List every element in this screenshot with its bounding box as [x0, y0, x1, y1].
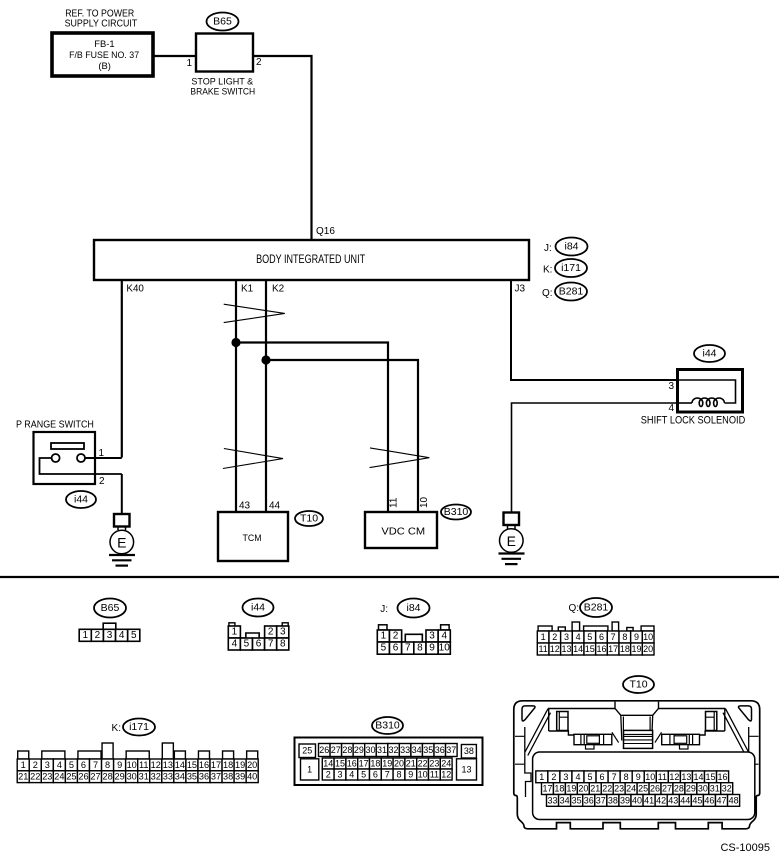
svg-text:27: 27 [90, 772, 100, 782]
svg-text:30: 30 [365, 745, 375, 755]
svg-text:16: 16 [347, 759, 357, 769]
svg-text:31: 31 [377, 745, 387, 755]
svg-text:2: 2 [552, 632, 557, 642]
svg-text:B65: B65 [101, 602, 120, 614]
svg-text:SHIFT LOCK SOLENOID: SHIFT LOCK SOLENOID [641, 415, 746, 427]
svg-text:22: 22 [418, 759, 428, 769]
svg-text:TCM: TCM [243, 533, 262, 544]
svg-text:21: 21 [406, 759, 416, 769]
svg-text:34: 34 [175, 772, 185, 782]
svg-text:6: 6 [81, 760, 86, 770]
svg-text:32: 32 [722, 784, 732, 794]
svg-text:10: 10 [643, 632, 653, 642]
svg-text:B281: B281 [584, 602, 609, 614]
svg-text:31: 31 [710, 784, 720, 794]
svg-text:4: 4 [575, 772, 580, 782]
svg-text:29: 29 [115, 772, 125, 782]
svg-text:1: 1 [99, 448, 105, 459]
svg-text:6: 6 [599, 632, 604, 642]
svg-text:7: 7 [405, 643, 411, 654]
svg-text:18: 18 [620, 644, 630, 654]
svg-text:13: 13 [163, 760, 173, 770]
svg-text:14: 14 [175, 760, 185, 770]
svg-text:FB-1: FB-1 [94, 38, 114, 49]
svg-text:4: 4 [119, 630, 125, 641]
svg-text:19: 19 [382, 759, 392, 769]
svg-text:33: 33 [548, 795, 558, 805]
svg-text:19: 19 [566, 784, 576, 794]
svg-text:4: 4 [668, 403, 674, 414]
svg-text:8: 8 [105, 760, 110, 770]
svg-text:1: 1 [539, 772, 544, 782]
svg-text:8: 8 [624, 772, 629, 782]
svg-text:30: 30 [698, 784, 708, 794]
svg-text:35: 35 [423, 745, 433, 755]
svg-text:22: 22 [602, 784, 612, 794]
svg-text:31: 31 [139, 772, 149, 782]
svg-text:26: 26 [319, 745, 329, 755]
svg-text:2: 2 [256, 57, 262, 68]
svg-text:23: 23 [614, 784, 624, 794]
svg-text:42: 42 [656, 795, 666, 805]
svg-text:K40: K40 [126, 283, 144, 294]
svg-text:11: 11 [389, 497, 400, 508]
svg-text:2: 2 [33, 760, 38, 770]
svg-text:B281: B281 [559, 286, 584, 298]
svg-text:32: 32 [389, 745, 399, 755]
svg-text:i44: i44 [251, 602, 265, 614]
svg-text:3: 3 [668, 381, 674, 392]
svg-text:J3: J3 [515, 284, 526, 295]
svg-text:7: 7 [385, 770, 390, 780]
svg-text:13: 13 [561, 644, 571, 654]
svg-text:2: 2 [326, 770, 331, 780]
svg-text:5: 5 [244, 639, 250, 650]
svg-text:12: 12 [151, 760, 161, 770]
svg-text:18: 18 [554, 784, 564, 794]
svg-text:Q:: Q: [542, 288, 553, 299]
svg-text:21: 21 [590, 784, 600, 794]
svg-text:11: 11 [430, 770, 439, 780]
svg-text:E: E [117, 535, 126, 551]
svg-text:9: 9 [634, 632, 639, 642]
svg-text:BODY INTEGRATED UNIT: BODY INTEGRATED UNIT [256, 252, 366, 266]
svg-text:2: 2 [551, 772, 556, 782]
svg-text:30: 30 [127, 772, 137, 782]
svg-text:B65: B65 [213, 16, 232, 28]
svg-text:4: 4 [232, 639, 238, 650]
svg-text:17: 17 [608, 644, 618, 654]
svg-text:9: 9 [636, 772, 641, 782]
svg-text:5: 5 [587, 632, 592, 642]
svg-text:Q:: Q: [568, 603, 579, 614]
svg-text:26: 26 [78, 772, 88, 782]
svg-text:9: 9 [408, 770, 413, 780]
svg-text:43: 43 [668, 795, 678, 805]
svg-text:24: 24 [441, 759, 451, 769]
svg-text:24: 24 [54, 772, 64, 782]
svg-text:E: E [507, 533, 516, 549]
svg-text:8: 8 [622, 632, 627, 642]
svg-text:12: 12 [550, 644, 560, 654]
svg-text:14: 14 [323, 759, 333, 769]
svg-text:47: 47 [717, 795, 727, 805]
svg-text:17: 17 [542, 784, 552, 794]
svg-text:35: 35 [572, 795, 582, 805]
svg-text:5: 5 [381, 643, 387, 654]
svg-text:46: 46 [704, 795, 714, 805]
svg-text:43: 43 [239, 501, 251, 512]
svg-text:P RANGE SWITCH: P RANGE SWITCH [16, 420, 94, 431]
svg-text:J:: J: [380, 604, 388, 615]
svg-text:20: 20 [578, 784, 588, 794]
svg-text:B310: B310 [444, 506, 469, 518]
svg-text:4: 4 [349, 770, 354, 780]
svg-text:15: 15 [187, 760, 197, 770]
svg-text:i84: i84 [406, 602, 420, 614]
svg-text:19: 19 [235, 760, 245, 770]
svg-text:12: 12 [441, 770, 451, 780]
svg-text:18: 18 [370, 759, 380, 769]
svg-text:39: 39 [620, 795, 630, 805]
svg-text:40: 40 [632, 795, 642, 805]
svg-text:1: 1 [186, 58, 192, 69]
svg-text:13: 13 [681, 772, 691, 782]
svg-text:25: 25 [66, 772, 76, 782]
svg-text:5: 5 [361, 770, 366, 780]
svg-text:15: 15 [585, 644, 595, 654]
svg-text:38: 38 [464, 746, 474, 756]
svg-text:10: 10 [418, 770, 428, 780]
svg-text:7: 7 [268, 639, 274, 650]
svg-text:Q16: Q16 [316, 226, 335, 237]
svg-text:19: 19 [631, 644, 641, 654]
svg-text:3: 3 [337, 770, 342, 780]
svg-text:29: 29 [354, 745, 364, 755]
svg-text:28: 28 [342, 745, 352, 755]
svg-text:39: 39 [235, 772, 245, 782]
svg-text:22: 22 [30, 772, 40, 782]
svg-text:3: 3 [280, 627, 286, 638]
svg-text:21: 21 [18, 772, 28, 782]
svg-text:1: 1 [307, 764, 312, 774]
svg-text:4: 4 [441, 631, 447, 642]
svg-text:26: 26 [650, 784, 660, 794]
svg-text:20: 20 [394, 759, 404, 769]
svg-text:T10: T10 [629, 679, 647, 691]
svg-text:i44: i44 [702, 348, 716, 360]
svg-text:7: 7 [611, 632, 616, 642]
svg-text:36: 36 [584, 795, 594, 805]
svg-text:34: 34 [412, 745, 422, 755]
svg-text:17: 17 [211, 760, 221, 770]
svg-text:4: 4 [576, 632, 581, 642]
svg-text:1: 1 [82, 630, 88, 641]
svg-text:23: 23 [42, 772, 52, 782]
svg-text:10: 10 [419, 496, 430, 508]
svg-text:2: 2 [268, 627, 274, 638]
svg-text:i171: i171 [129, 721, 149, 733]
svg-text:11: 11 [658, 772, 667, 782]
svg-text:8: 8 [280, 639, 286, 650]
svg-text:28: 28 [102, 772, 112, 782]
svg-text:K2: K2 [272, 284, 285, 295]
svg-text:9: 9 [429, 643, 435, 654]
svg-text:F/B FUSE NO. 37: F/B FUSE NO. 37 [69, 49, 139, 60]
svg-text:38: 38 [223, 772, 233, 782]
svg-text:35: 35 [187, 772, 197, 782]
svg-text:3: 3 [564, 632, 569, 642]
svg-text:6: 6 [600, 772, 605, 782]
svg-text:15: 15 [335, 759, 345, 769]
svg-text:2: 2 [99, 476, 105, 487]
svg-text:3: 3 [45, 760, 50, 770]
svg-text:11: 11 [139, 760, 149, 770]
svg-text:10: 10 [645, 772, 655, 782]
svg-text:27: 27 [662, 784, 672, 794]
svg-text:29: 29 [686, 784, 696, 794]
svg-text:12: 12 [669, 772, 679, 782]
svg-text:5: 5 [588, 772, 593, 782]
svg-text:36: 36 [435, 745, 445, 755]
svg-text:10: 10 [127, 760, 137, 770]
svg-text:3: 3 [107, 630, 113, 641]
svg-text:i84: i84 [564, 241, 578, 253]
svg-text:13: 13 [461, 764, 471, 774]
svg-text:9: 9 [117, 760, 122, 770]
svg-text:25: 25 [638, 784, 648, 794]
svg-text:11: 11 [538, 644, 547, 654]
svg-text:i44: i44 [74, 494, 88, 506]
svg-text:16: 16 [199, 760, 209, 770]
svg-text:5: 5 [69, 760, 74, 770]
svg-text:34: 34 [560, 795, 570, 805]
svg-text:28: 28 [674, 784, 684, 794]
svg-text:6: 6 [373, 770, 378, 780]
svg-text:5: 5 [131, 630, 137, 641]
svg-text:8: 8 [396, 770, 401, 780]
svg-text:18: 18 [223, 760, 233, 770]
svg-text:2: 2 [95, 630, 101, 641]
svg-text:1: 1 [232, 627, 238, 638]
svg-text:27: 27 [331, 745, 341, 755]
svg-text:K:: K: [112, 723, 121, 734]
svg-text:1: 1 [21, 760, 26, 770]
svg-text:(B): (B) [98, 60, 111, 71]
svg-text:BRAKE SWITCH: BRAKE SWITCH [190, 86, 255, 97]
svg-text:K1: K1 [241, 284, 254, 295]
svg-text:15: 15 [706, 772, 716, 782]
svg-text:25: 25 [302, 746, 312, 756]
svg-text:K:: K: [543, 265, 552, 276]
svg-text:40: 40 [247, 772, 257, 782]
svg-text:CS-10095: CS-10095 [720, 842, 770, 854]
svg-text:2: 2 [393, 631, 399, 642]
svg-text:B310: B310 [375, 720, 400, 732]
svg-text:33: 33 [163, 772, 173, 782]
svg-text:3: 3 [563, 772, 568, 782]
svg-text:J:: J: [544, 243, 552, 254]
svg-text:14: 14 [573, 644, 583, 654]
svg-text:VDC CM: VDC CM [381, 527, 425, 538]
svg-text:8: 8 [417, 643, 423, 654]
svg-text:10: 10 [439, 643, 451, 654]
svg-text:T10: T10 [300, 513, 318, 525]
svg-text:36: 36 [199, 772, 209, 782]
svg-text:37: 37 [596, 795, 606, 805]
svg-text:7: 7 [93, 760, 98, 770]
svg-text:6: 6 [393, 643, 399, 654]
svg-text:4: 4 [57, 760, 62, 770]
svg-text:7: 7 [612, 772, 617, 782]
svg-text:16: 16 [596, 644, 606, 654]
svg-text:44: 44 [680, 795, 690, 805]
svg-text:48: 48 [729, 795, 739, 805]
svg-text:41: 41 [644, 795, 654, 805]
svg-text:16: 16 [718, 772, 728, 782]
svg-text:SUPPLY CIRCUIT: SUPPLY CIRCUIT [65, 19, 138, 30]
svg-text:i171: i171 [561, 262, 581, 274]
svg-text:3: 3 [429, 631, 435, 642]
svg-text:33: 33 [400, 745, 410, 755]
svg-text:20: 20 [247, 760, 257, 770]
svg-text:14: 14 [693, 772, 703, 782]
svg-text:44: 44 [269, 501, 281, 512]
svg-text:45: 45 [692, 795, 702, 805]
svg-text:20: 20 [643, 644, 653, 654]
svg-text:17: 17 [359, 759, 369, 769]
svg-text:32: 32 [151, 772, 161, 782]
svg-text:1: 1 [541, 632, 546, 642]
svg-text:37: 37 [446, 745, 456, 755]
svg-text:23: 23 [429, 759, 439, 769]
svg-text:6: 6 [256, 639, 262, 650]
svg-text:38: 38 [608, 795, 618, 805]
svg-text:24: 24 [626, 784, 636, 794]
svg-text:37: 37 [211, 772, 221, 782]
svg-text:1: 1 [381, 631, 387, 642]
